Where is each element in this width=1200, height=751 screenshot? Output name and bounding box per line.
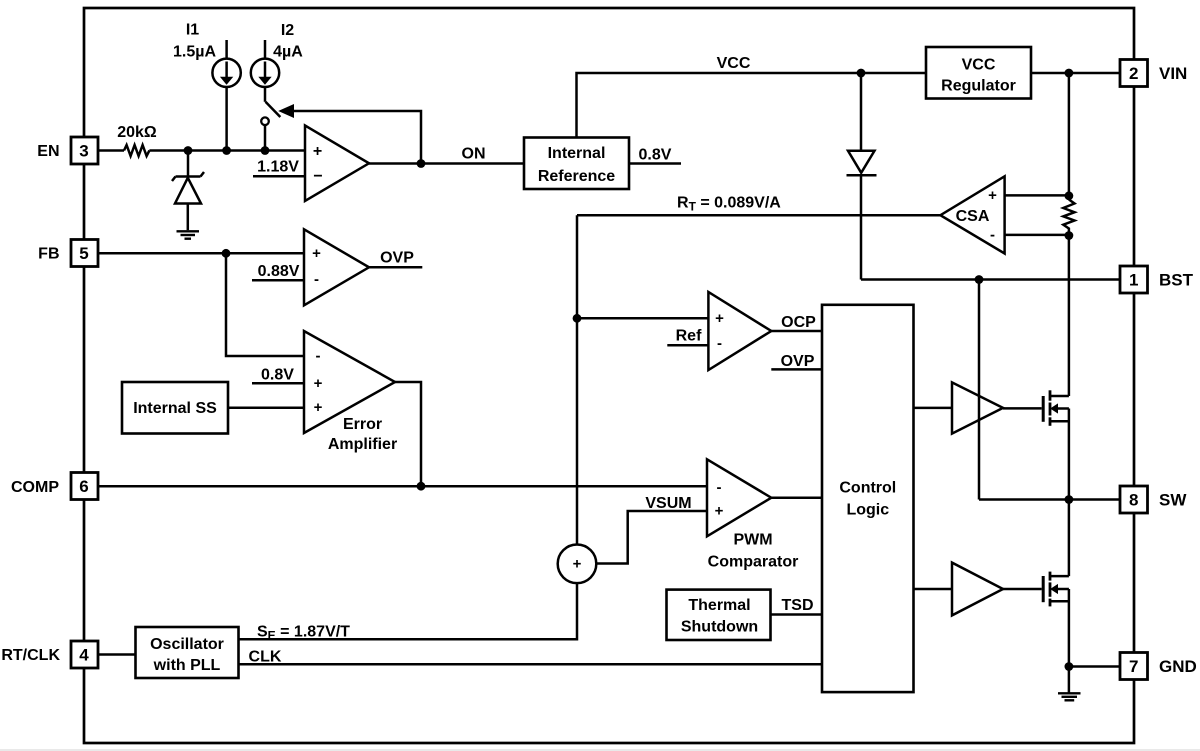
svg-text:+: + — [715, 502, 724, 519]
wire VSUM — [596, 495, 707, 563]
svg-text:-: - — [314, 271, 319, 288]
svg-text:Oscillator: Oscillator — [150, 636, 224, 653]
svg-text:GND: GND — [1159, 657, 1197, 676]
node OCP branch — [573, 314, 582, 323]
svg-text:RT/CLK: RT/CLK — [1, 647, 60, 664]
svg-text:1: 1 — [1129, 271, 1138, 290]
pin 5 FB — [38, 240, 98, 267]
svg-text:+: + — [988, 187, 997, 204]
svg-text:-: - — [990, 226, 995, 243]
block Oscillator with PLL — [136, 627, 239, 678]
block Thermal Shutdown — [667, 590, 771, 640]
svg-text:CLK: CLK — [249, 649, 282, 666]
wire SW net — [979, 498, 1120, 501]
node ON-feedback junction — [417, 159, 426, 168]
summing node — [558, 545, 597, 584]
gate driver 2 — [952, 563, 1003, 616]
node sense resistor top — [1065, 191, 1074, 200]
wire control logic to driver 1 — [914, 407, 953, 410]
svg-text:TSD: TSD — [782, 597, 814, 614]
node sense resistor bottom — [1065, 231, 1074, 240]
svg-text:VSUM: VSUM — [645, 495, 691, 512]
wire to zener — [187, 151, 190, 177]
svg-text:+: + — [715, 310, 724, 327]
wire SE (slope comp) — [239, 583, 578, 642]
wire RT down to summing node — [576, 215, 579, 545]
current source I2 — [251, 22, 303, 87]
wire Q2 source to GND — [1068, 589, 1071, 667]
wire CSA + input — [1005, 194, 1069, 197]
pin 6 COMP — [11, 473, 98, 500]
svg-text:Control: Control — [839, 479, 896, 496]
ground (zener) — [177, 231, 200, 238]
svg-text:Shutdown: Shutdown — [681, 618, 758, 635]
svg-text:-: - — [717, 335, 722, 352]
wire Internal SS to error amp — [228, 406, 304, 409]
wire VCC net — [577, 55, 927, 138]
node SW junction — [1065, 495, 1074, 504]
svg-text:−: − — [313, 168, 322, 185]
zener diode — [172, 172, 204, 204]
node EN-zener junction — [184, 146, 193, 155]
svg-text:5: 5 — [79, 244, 88, 263]
comparator OVP (FB) — [304, 229, 369, 305]
reference 0.88V — [252, 263, 304, 280]
wire RT (current sense output) — [577, 195, 940, 216]
svg-text:+: + — [313, 143, 322, 160]
svg-text:20kΩ: 20kΩ — [117, 124, 157, 141]
wire BST to SW — [978, 280, 981, 500]
wire TSD — [771, 597, 823, 615]
wire CLK — [239, 649, 823, 666]
wire to OCP comparator — [577, 317, 708, 320]
block Control Logic — [822, 305, 914, 692]
wire control logic to driver 2 — [914, 588, 953, 591]
svg-text:-: - — [717, 479, 722, 496]
node VIN junction — [1065, 69, 1074, 78]
comparator OCP — [708, 292, 771, 370]
wire driver 1 to Q1 gate — [1003, 407, 1042, 410]
pin 1 BST — [1120, 266, 1194, 293]
wire error amp output to COMP — [395, 382, 421, 486]
svg-text:6: 6 — [79, 477, 88, 496]
svg-text:Amplifier: Amplifier — [328, 436, 397, 453]
pin 3 EN — [37, 137, 98, 164]
wire ON — [369, 146, 524, 164]
ground (power) — [1058, 667, 1081, 701]
node EN-I1 junction — [222, 146, 231, 155]
wire OVP output — [369, 249, 422, 267]
op-amp CSA — [940, 176, 1004, 253]
reference 0.8V (error amp) — [252, 366, 304, 383]
wire OCP to control logic — [771, 314, 822, 331]
svg-text:EN: EN — [37, 143, 59, 160]
svg-text:OVP: OVP — [380, 249, 414, 266]
svg-text:1.5µA: 1.5µA — [173, 44, 216, 61]
wire VCC regulator to VIN pin — [1031, 72, 1120, 75]
reference Ref — [667, 327, 708, 345]
block Internal Reference — [524, 138, 629, 190]
svg-text:Error: Error — [343, 416, 382, 433]
svg-text:ON: ON — [462, 146, 486, 163]
node COMP junction — [417, 482, 426, 491]
svg-text:RT = 0.089V/A: RT = 0.089V/A — [677, 195, 781, 214]
reference 1.18V — [253, 159, 305, 177]
svg-text:Internal SS: Internal SS — [133, 400, 217, 417]
svg-text:+: + — [573, 555, 582, 572]
wire CSA - input — [1005, 234, 1069, 237]
wire BST net — [861, 278, 1120, 281]
pin 7 GND — [1120, 653, 1197, 680]
svg-text:1.18V: 1.18V — [257, 159, 299, 176]
svg-text:0.8V: 0.8V — [639, 147, 672, 164]
svg-text:I1: I1 — [186, 22, 199, 39]
pin 4 RT/CLK — [1, 641, 98, 668]
svg-text:0.88V: 0.88V — [258, 263, 300, 280]
wire I1 to EN net — [225, 87, 228, 151]
svg-text:4µA: 4µA — [273, 44, 303, 61]
svg-text:VIN: VIN — [1159, 64, 1187, 83]
diode D1 (BST) — [847, 73, 877, 280]
block VCC Regulator — [926, 47, 1031, 99]
svg-text:7: 7 — [1129, 657, 1138, 676]
wire EN pin to resistor — [98, 149, 124, 152]
svg-text:0.8V: 0.8V — [261, 366, 294, 383]
svg-text:PWM: PWM — [733, 532, 772, 549]
wire RT/CLK to oscillator — [98, 653, 136, 656]
svg-text:SE = 1.87V/T: SE = 1.87V/T — [257, 623, 350, 642]
node EN-I2 junction — [261, 146, 270, 155]
wire FB net — [98, 252, 304, 255]
wire zener to ground — [187, 204, 190, 231]
svg-text:8: 8 — [1129, 491, 1138, 510]
page edge rule — [0, 749, 1200, 751]
svg-text:Internal: Internal — [548, 145, 606, 162]
svg-text:I2: I2 — [281, 22, 294, 39]
svg-text:VCC: VCC — [962, 57, 996, 74]
svg-text:FB: FB — [38, 246, 59, 263]
node VCC-diode junction — [857, 69, 866, 78]
wire Q1 source to SW — [1068, 409, 1071, 500]
svg-text:Reference: Reference — [538, 168, 615, 185]
switch S1 (I2 enable) — [261, 87, 280, 151]
wire EN net — [149, 149, 305, 152]
pin 2 VIN — [1120, 60, 1187, 87]
svg-text:-: - — [316, 348, 321, 365]
wire GND net — [1069, 665, 1120, 668]
svg-text:2: 2 — [1129, 64, 1138, 83]
svg-text:Logic: Logic — [846, 501, 889, 518]
node BST junction — [975, 275, 984, 284]
wire COMP net — [98, 485, 707, 488]
svg-text:SW: SW — [1159, 491, 1187, 510]
node FB junction — [222, 249, 231, 258]
resistor Rsense — [1063, 200, 1074, 236]
svg-text:3: 3 — [79, 142, 88, 161]
svg-text:Ref: Ref — [676, 327, 702, 344]
svg-text:with PLL: with PLL — [153, 657, 221, 674]
op-amp Error Amplifier — [304, 331, 397, 453]
svg-text:+: + — [312, 245, 321, 262]
wire 0.8V output — [629, 147, 681, 164]
svg-text:Comparator: Comparator — [708, 554, 799, 571]
svg-text:COMP: COMP — [11, 479, 59, 496]
wire VIN to sense resistor — [1068, 73, 1071, 196]
svg-text:+: + — [314, 375, 323, 392]
comparator PWM — [707, 459, 798, 570]
wire resistor to Q1 drain — [1068, 236, 1071, 397]
svg-text:+: + — [314, 399, 323, 416]
svg-text:CSA: CSA — [956, 208, 990, 225]
svg-text:OCP: OCP — [781, 314, 816, 331]
resistor 20kΩ — [117, 124, 157, 156]
svg-text:4: 4 — [79, 646, 89, 665]
transistor Q1 (high side) — [1043, 390, 1069, 426]
svg-text:Thermal: Thermal — [688, 597, 750, 614]
svg-text:BST: BST — [1159, 271, 1194, 290]
transistor Q2 (low side) — [1043, 572, 1069, 607]
svg-text:OVP: OVP — [781, 353, 815, 370]
wire feedback to switch — [280, 105, 422, 164]
svg-text:VCC: VCC — [717, 55, 751, 72]
wire OVP to control logic — [771, 353, 822, 370]
gate driver 1 — [952, 382, 1003, 433]
svg-text:Regulator: Regulator — [941, 78, 1016, 95]
block Internal SS — [122, 382, 228, 434]
current source I1 — [173, 22, 241, 88]
wire Q2 drain to SW — [1068, 500, 1071, 577]
wire PWM output to control logic — [771, 496, 822, 499]
pin 8 SW — [1120, 486, 1187, 513]
node GND junction — [1065, 662, 1074, 671]
wire FB to error amp — [226, 253, 304, 356]
wire driver 2 to Q2 gate — [1003, 588, 1042, 591]
comparator EN (U1) — [305, 126, 369, 202]
